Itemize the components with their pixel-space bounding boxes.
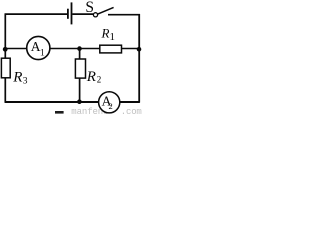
wire left edge [4, 14, 6, 103]
wire battery to switch [72, 13, 93, 15]
ammeter A2 [99, 92, 120, 113]
resistor R3 [1, 58, 10, 78]
wire right edge [138, 14, 140, 103]
wire switch to top-right corner [108, 14, 140, 16]
svg-text:2: 2 [109, 101, 113, 111]
battery long plate (positive) [71, 2, 73, 24]
wire bottom edge [5, 101, 140, 103]
junction dot middle top (node R2 top) [77, 46, 82, 51]
wire middle vertical branch [79, 49, 81, 102]
resistor R1 [100, 45, 122, 53]
svg-text:R: R [86, 69, 96, 85]
svg-text:3: 3 [23, 76, 28, 86]
battery short plate (negative) [67, 9, 69, 19]
svg-text:R: R [101, 26, 110, 41]
switch lever [98, 7, 114, 14]
wire middle horizontal (A1-R1 line) [5, 48, 140, 50]
svg-text:1: 1 [40, 49, 45, 59]
wire top left segment [5, 13, 68, 15]
ammeter A1 [27, 36, 50, 59]
resistor R2 [75, 59, 85, 78]
svg-text:1: 1 [110, 31, 116, 43]
svg-text:S: S [85, 0, 94, 16]
junction dot right (node on right edge) [137, 47, 142, 52]
junction dot left (node on middle line at left edge) [3, 47, 8, 52]
svg-text:R: R [12, 69, 22, 85]
svg-text:2: 2 [97, 74, 102, 84]
switch S pivot circle [93, 13, 97, 17]
svg-text:.com: .com [121, 107, 142, 116]
junction dot middle bottom (node R2 bottom) [77, 99, 82, 104]
watermark dash [55, 111, 64, 114]
